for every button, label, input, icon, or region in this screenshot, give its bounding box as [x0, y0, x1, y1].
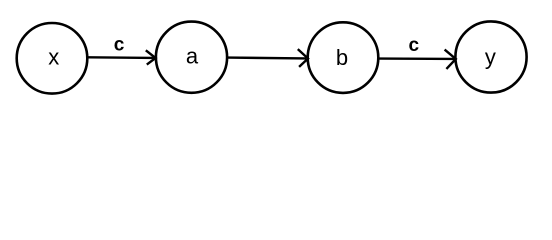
node a	[156, 22, 227, 93]
label c on edge b to y	[409, 35, 420, 56]
label c on edge x to a	[114, 35, 125, 56]
svg-text:x: x	[48, 45, 59, 70]
svg-text:c: c	[114, 35, 125, 56]
node y	[455, 21, 526, 92]
node b	[308, 22, 379, 93]
svg-text:c: c	[409, 35, 420, 56]
svg-text:y: y	[485, 45, 496, 70]
svg-text:b: b	[336, 45, 348, 70]
edge b to y	[379, 50, 456, 69]
edge x to a	[89, 50, 156, 64]
svg-text:a: a	[186, 44, 199, 69]
node x	[17, 23, 88, 94]
edge a to b	[228, 49, 309, 67]
